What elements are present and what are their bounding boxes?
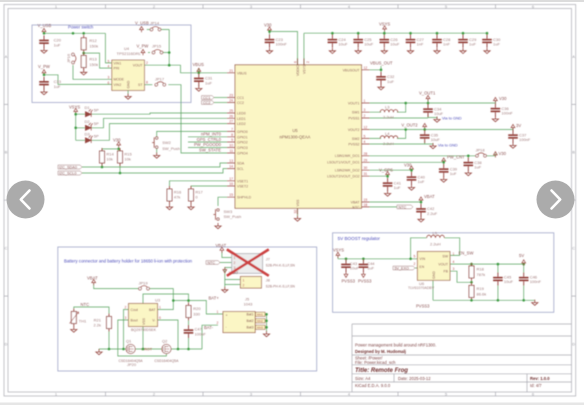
svg-text:5: 5 bbox=[414, 255, 416, 259]
junction V30 bbox=[268, 30, 271, 33]
svg-text:JP19: JP19 bbox=[139, 280, 149, 285]
svg-text:2.2uH: 2.2uH bbox=[383, 141, 394, 146]
ground under C28 bbox=[434, 48, 440, 54]
svg-text:L3: L3 bbox=[385, 105, 390, 110]
wire BAT+ rail bbox=[173, 301, 223, 315]
resistor R21 bbox=[107, 314, 112, 332]
svg-text:VBUSOUT: VBUSOUT bbox=[343, 68, 361, 72]
svg-text:2.2k: 2.2k bbox=[93, 323, 101, 328]
wire PW_PGOOD0 bbox=[188, 147, 227, 149]
resistor R13 bbox=[81, 53, 86, 71]
op IC U4 TPS2116DRL bbox=[112, 60, 145, 90]
svg-text:16: 16 bbox=[229, 182, 233, 186]
svg-text:19: 19 bbox=[364, 198, 368, 202]
wire V_USB rail bbox=[44, 33, 112, 63]
junction vout1 l3 bbox=[404, 102, 407, 105]
junction r20 top bbox=[187, 299, 190, 302]
ground under U4 bbox=[127, 90, 129, 94]
capacitor C27 bbox=[406, 35, 416, 48]
wire V30 top bbox=[270, 32, 298, 65]
ground under C25 bbox=[355, 48, 361, 54]
svg-text:VSYS: VSYS bbox=[379, 21, 390, 26]
svg-text:47k: 47k bbox=[174, 195, 180, 200]
svg-text:CC2: CC2 bbox=[237, 101, 244, 105]
svg-text:Power switch: Power switch bbox=[68, 24, 94, 29]
wire BQ supply bbox=[143, 294, 189, 304]
svg-text:V30: V30 bbox=[264, 23, 272, 28]
power flag VBAT right bbox=[419, 197, 423, 203]
svg-text:BQ29700DSEK: BQ29700DSEK bbox=[131, 328, 157, 332]
svg-text:10uF: 10uF bbox=[364, 42, 374, 47]
junction gnd rail r19 bbox=[470, 299, 473, 302]
inductor L4 bbox=[380, 136, 398, 139]
svg-text:VBAT: VBAT bbox=[424, 194, 435, 199]
wire VSYS leds rail bbox=[76, 112, 85, 140]
svg-text:PVSS3: PVSS3 bbox=[358, 279, 372, 284]
svg-text:5V_EXO: 5V_EXO bbox=[395, 267, 409, 271]
svg-text:2: 2 bbox=[243, 284, 245, 288]
svg-text:Power management build around: Power management build around nRF1300. bbox=[355, 342, 436, 347]
svg-text:1: 1 bbox=[364, 99, 366, 103]
svg-text:VOUT: VOUT bbox=[133, 64, 144, 68]
svg-text:B: B bbox=[572, 150, 575, 155]
svg-text:TLV61070ADBV: TLV61070ADBV bbox=[408, 286, 435, 290]
capacitor C37 bbox=[508, 130, 518, 143]
power flag V_OUT1 bbox=[426, 95, 430, 101]
wire LSOUT1 net bbox=[370, 160, 444, 165]
junction gnd rail c45 bbox=[497, 299, 500, 302]
svg-text:D: D bbox=[572, 342, 575, 347]
svg-text:11: 11 bbox=[229, 149, 233, 153]
wire NTC stub bbox=[370, 206, 398, 208]
U5 top bottom pin stubs bbox=[298, 59, 304, 215]
svg-text:MH3: MH3 bbox=[257, 325, 263, 329]
svg-text:R13: R13 bbox=[89, 57, 97, 62]
title block lines bbox=[352, 324, 572, 392]
svg-text:MH1: MH1 bbox=[257, 312, 263, 316]
svg-text:JP15: JP15 bbox=[152, 44, 162, 49]
ground bat terminals bbox=[263, 331, 269, 337]
inductor L3 bbox=[380, 110, 398, 113]
pwr down PVSS3 c43 bbox=[344, 272, 348, 278]
svg-text:1: 1 bbox=[217, 310, 219, 314]
capacitor C30 bbox=[482, 35, 492, 48]
svg-text:1uF: 1uF bbox=[493, 42, 500, 47]
wire LED0 bbox=[92, 113, 228, 114]
svg-text:BAT+: BAT+ bbox=[209, 295, 220, 300]
svg-text:3V: 3V bbox=[516, 123, 521, 128]
global label NTC right bbox=[397, 205, 413, 209]
svg-text:1: 1 bbox=[453, 252, 455, 256]
junction vbusout bbox=[380, 69, 383, 72]
svg-text:JP17: JP17 bbox=[155, 76, 165, 81]
svg-text:BAT: BAT bbox=[149, 308, 156, 312]
power flag VBAT battery bbox=[92, 279, 96, 285]
wire LSIN2 net bbox=[370, 169, 412, 173]
capacitor C43 bbox=[341, 259, 351, 272]
capacitor C46 bbox=[519, 273, 529, 286]
top window edge bbox=[0, 0, 584, 2]
svg-text:Battery connector and battery: Battery connector and battery holder for… bbox=[64, 259, 193, 264]
power flag V30 c36 bbox=[494, 97, 498, 103]
svg-text:NTC: NTC bbox=[399, 205, 407, 209]
jumper JP17 bbox=[155, 82, 166, 86]
svg-text:Size: A4: Size: A4 bbox=[355, 376, 371, 381]
junction vout2 c35 bbox=[423, 128, 426, 131]
svg-text:1043: 1043 bbox=[244, 302, 254, 307]
svg-text:VSS: VSS bbox=[296, 199, 300, 207]
svg-text:10uF: 10uF bbox=[338, 42, 348, 47]
capacitor C42 bbox=[416, 204, 426, 217]
junction bat plus bbox=[172, 299, 175, 302]
svg-text:Date: 2025-03-12: Date: 2025-03-12 bbox=[398, 376, 431, 381]
junction VOUT rail bbox=[168, 64, 171, 67]
junction vbat bbox=[420, 201, 423, 204]
svg-text:GPS_CTRL0: GPS_CTRL0 bbox=[197, 137, 222, 142]
svg-text:5V BOOST regulator: 5V BOOST regulator bbox=[338, 236, 381, 241]
junction rail dots bbox=[108, 348, 111, 351]
svg-text:VSS: VSS bbox=[142, 317, 146, 325]
U5 left pin numbers bbox=[229, 69, 233, 197]
U5 right pin numbers bbox=[364, 66, 368, 207]
svg-text:GND: GND bbox=[432, 271, 436, 279]
power flag VBAT J7 bbox=[220, 247, 224, 253]
wire PVSS1 gnd bbox=[370, 115, 438, 119]
svg-text:1uF: 1uF bbox=[367, 266, 374, 271]
svg-text:CC1: CC1 bbox=[203, 96, 210, 100]
svg-text:S2B-PH-K-S,LF,SN: S2B-PH-K-S,LF,SN bbox=[266, 285, 296, 289]
svg-text:1: 1 bbox=[234, 256, 236, 260]
svg-text:NTC: NTC bbox=[81, 302, 90, 307]
power flag V30 top bbox=[268, 27, 272, 33]
svg-text:TH1: TH1 bbox=[79, 319, 87, 324]
svg-text:4: 4 bbox=[364, 140, 366, 144]
capacitor C39 bbox=[439, 164, 449, 177]
column ticks top bbox=[106, 5, 496, 9]
svg-text:10k: 10k bbox=[106, 157, 112, 162]
wire V30 pullups bbox=[102, 146, 120, 151]
bat terminal boxes bbox=[256, 312, 266, 316]
wire SW2 gnd lead bbox=[156, 148, 158, 153]
svg-text:JP16: JP16 bbox=[66, 53, 71, 63]
svg-text:31: 31 bbox=[364, 172, 368, 176]
wire SHPHLD SW3 bbox=[218, 197, 227, 206]
svg-text:1uF: 1uF bbox=[205, 80, 212, 85]
svg-text:150k: 150k bbox=[89, 62, 98, 67]
wire VSYS boost rail bbox=[338, 238, 427, 262]
svg-text:nPM1300-QEAA: nPM1300-QEAA bbox=[280, 135, 311, 140]
wire CC2 bbox=[214, 102, 227, 104]
svg-text:L5: L5 bbox=[433, 230, 438, 235]
capacitor C47 bbox=[184, 325, 194, 338]
ground under C20 bbox=[41, 48, 47, 54]
junction led2 bbox=[74, 127, 77, 130]
svg-text:10k: 10k bbox=[124, 157, 130, 162]
capacitor C45 bbox=[493, 273, 503, 286]
jumper JP18 bbox=[476, 153, 487, 157]
svg-text:PW_CNT: PW_CNT bbox=[447, 155, 465, 160]
svg-text:10uF: 10uF bbox=[350, 266, 360, 271]
svg-text:U3: U3 bbox=[155, 297, 161, 302]
bottom window edge bbox=[0, 403, 584, 405]
svg-text:VSYS: VSYS bbox=[333, 248, 344, 253]
power flag V_OUT2 bbox=[423, 123, 427, 129]
svg-text:GND: GND bbox=[127, 80, 131, 88]
svg-text:LED0: LED0 bbox=[237, 112, 246, 116]
wire LED1 bbox=[92, 118, 228, 128]
svg-text:27: 27 bbox=[229, 120, 233, 124]
battery section box bbox=[58, 247, 317, 371]
resistor R19 bbox=[469, 282, 474, 300]
capacitor C23 bbox=[265, 35, 275, 48]
svg-text:LSOUT2/VOUT_DO2: LSOUT2/VOUT_DO2 bbox=[327, 175, 360, 179]
wire VOUT 5V rail bbox=[450, 263, 524, 273]
svg-text:2.2uF: 2.2uF bbox=[427, 211, 438, 216]
svg-text:24: 24 bbox=[229, 99, 233, 103]
wire R12 divider to PRI bbox=[84, 53, 112, 68]
pin numbers U4 bbox=[108, 59, 149, 85]
transistor Q1 bbox=[126, 344, 135, 353]
svg-text:+: + bbox=[226, 313, 228, 317]
svg-text:3: 3 bbox=[125, 316, 127, 320]
capacitor C35 bbox=[420, 130, 430, 143]
resistor R15 bbox=[118, 148, 123, 166]
svg-text:PVSS3: PVSS3 bbox=[416, 304, 430, 309]
wire U4 VOUT to VBUS bbox=[144, 65, 227, 73]
svg-text:V30: V30 bbox=[404, 163, 412, 168]
svg-text:VBAT: VBAT bbox=[216, 243, 227, 248]
capacitor C32 bbox=[376, 72, 386, 85]
svg-text:PRI: PRI bbox=[114, 67, 120, 71]
svg-text:FB: FB bbox=[444, 270, 449, 274]
junction R14 sda bbox=[101, 166, 104, 169]
power flag V30 pullups bbox=[117, 142, 121, 148]
svg-text:V_OUT2: V_OUT2 bbox=[401, 123, 418, 128]
svg-text:3: 3 bbox=[453, 267, 455, 271]
svg-text:CC1: CC1 bbox=[237, 96, 244, 100]
connector J8 bbox=[240, 277, 261, 289]
svg-text:VSYS: VSYS bbox=[69, 104, 80, 109]
svg-text:12: 12 bbox=[364, 66, 368, 70]
IC U6 TLV61070 bbox=[417, 252, 450, 281]
svg-text:KiCad E.D.A. 9.0.0: KiCad E.D.A. 9.0.0 bbox=[355, 383, 391, 388]
wire J7 feeds bbox=[220, 252, 240, 288]
ground under U5 bbox=[294, 216, 300, 222]
ground under R16 bbox=[166, 204, 172, 210]
column numbers bbox=[55, 4, 535, 397]
svg-text:SW_STATE: SW_STATE bbox=[199, 148, 221, 153]
wire BQ BAT pin bbox=[158, 301, 174, 310]
power flag VSYS boost bbox=[336, 252, 340, 258]
svg-text:LSIN1/WK_DO1: LSIN1/WK_DO1 bbox=[335, 154, 360, 158]
wire NTC R21 bbox=[74, 307, 109, 314]
svg-text:25: 25 bbox=[229, 109, 233, 113]
junction c27 bbox=[409, 32, 412, 35]
svg-text:V_PW: V_PW bbox=[38, 64, 50, 69]
power switch section box bbox=[32, 25, 191, 103]
svg-text:1uF: 1uF bbox=[469, 42, 476, 47]
power flag V_USB at JP14 bbox=[140, 26, 144, 32]
svg-text:2.2uH: 2.2uH bbox=[430, 241, 441, 246]
svg-text:10uF: 10uF bbox=[504, 279, 514, 284]
wire U5 bottom stub bbox=[297, 208, 299, 216]
svg-text:U5: U5 bbox=[292, 128, 298, 133]
ground under C31 bbox=[196, 86, 202, 92]
nav button left bbox=[7, 181, 45, 219]
power flag VBAT down bbox=[223, 267, 227, 273]
svg-text:V_OUT1: V_OUT1 bbox=[419, 90, 436, 95]
red X no-connect bbox=[227, 249, 269, 275]
junction gnd rail c46 bbox=[522, 299, 525, 302]
svg-text:VSET2: VSET2 bbox=[237, 185, 248, 189]
power flag V_PW at JP15 bbox=[141, 49, 145, 55]
junction c28 bbox=[436, 32, 439, 35]
svg-text:PVSS1: PVSS1 bbox=[348, 117, 359, 121]
ground bottom rail bbox=[96, 349, 102, 355]
svg-text:NTC: NTC bbox=[352, 205, 360, 209]
capacitor C34 bbox=[423, 104, 433, 117]
wire I2C_SDA0 bbox=[82, 163, 227, 167]
wire BQ Cout to Q1 bbox=[124, 310, 129, 350]
power flag V30 lsin2 bbox=[410, 166, 414, 172]
global label CC1 bbox=[202, 96, 215, 100]
wire L4 loop bbox=[370, 130, 406, 139]
svg-text:1uF: 1uF bbox=[450, 171, 457, 176]
svg-text:18: 18 bbox=[364, 203, 368, 207]
junction c25 bbox=[357, 32, 360, 35]
svg-text:SW: SW bbox=[442, 255, 448, 259]
junction v30 pullup bbox=[117, 148, 120, 151]
svg-text:2: 2 bbox=[146, 61, 148, 65]
capacitor C40 bbox=[407, 172, 417, 185]
svg-text:SW1: SW1 bbox=[352, 111, 360, 115]
svg-text:1uF: 1uF bbox=[387, 79, 394, 84]
svg-text:32: 32 bbox=[294, 210, 298, 214]
ground under C37 bbox=[510, 143, 516, 149]
ground under C27 bbox=[407, 48, 413, 54]
wire FB divider bbox=[450, 271, 472, 282]
IC U3 BQ29700 bbox=[129, 304, 158, 327]
ground under C41 bbox=[385, 191, 391, 197]
svg-text:V30: V30 bbox=[499, 151, 507, 156]
capacitor C38 bbox=[464, 158, 474, 171]
svg-text:MODE: MODE bbox=[114, 78, 125, 82]
ground under C30 bbox=[484, 48, 490, 54]
svg-text:1: 1 bbox=[243, 278, 245, 282]
svg-text:S2B-PH-K-S,LF,SN: S2B-PH-K-S,LF,SN bbox=[266, 264, 296, 268]
junction JP16 top bbox=[72, 32, 75, 35]
wire LED2 bbox=[92, 124, 228, 141]
svg-text:JP18: JP18 bbox=[476, 147, 486, 152]
junction vout1 c34 bbox=[427, 102, 430, 105]
svg-text:Via to GND: Via to GND bbox=[438, 142, 458, 147]
svg-text:SHPHLD: SHPHLD bbox=[237, 196, 252, 200]
junction boost rail c43 bbox=[345, 258, 348, 261]
svg-text:SCL: SCL bbox=[237, 167, 244, 171]
boost regulator section box bbox=[333, 233, 554, 312]
svg-text:17: 17 bbox=[229, 177, 233, 181]
svg-text:PVSS3: PVSS3 bbox=[342, 279, 356, 284]
svg-text:12: 12 bbox=[364, 126, 368, 130]
switch SW2 bbox=[152, 137, 158, 149]
wire SW_STATE net bbox=[168, 85, 227, 153]
svg-text:SW_Push: SW_Push bbox=[162, 146, 180, 151]
power flag VSYS leds bbox=[74, 108, 78, 114]
U5 right pin stubs bbox=[362, 70, 370, 207]
column ticks bottom bbox=[106, 392, 496, 396]
wire SW2 to GPIO0 bbox=[157, 131, 227, 136]
switch SW3 bbox=[213, 209, 219, 221]
wire VBUSOUT net bbox=[370, 66, 382, 72]
resistor R16 bbox=[167, 186, 172, 204]
svg-text:30: 30 bbox=[364, 166, 368, 170]
wire J5 bat pins bbox=[265, 314, 267, 331]
junction bat terminals bbox=[265, 313, 268, 316]
led D1 bbox=[85, 109, 92, 117]
svg-text:1uF: 1uF bbox=[54, 84, 61, 89]
power flag V30 jp18 bbox=[494, 152, 498, 158]
power flag 3V bbox=[511, 124, 515, 130]
boost wires bbox=[338, 238, 535, 301]
ground under C40 bbox=[408, 185, 414, 191]
svg-text:Q2: Q2 bbox=[162, 338, 168, 343]
svg-text:L4: L4 bbox=[385, 131, 390, 136]
svg-text:A: A bbox=[572, 54, 575, 59]
svg-text:3: 3 bbox=[108, 76, 110, 80]
global label I2C_SDA0 bbox=[58, 165, 82, 169]
capacitor C26 bbox=[380, 35, 390, 48]
junction c30 bbox=[486, 32, 489, 35]
global label CC2 bbox=[202, 101, 215, 105]
row letters bbox=[5, 54, 576, 347]
svg-text:15: 15 bbox=[229, 193, 233, 197]
junction R12 top bbox=[82, 32, 85, 35]
wire CC1 bbox=[214, 97, 227, 99]
wire LSOUT2 net bbox=[370, 174, 388, 179]
capacitor C31 bbox=[194, 73, 204, 86]
junction lsout2 bbox=[386, 175, 389, 178]
ground under TH1 bbox=[71, 327, 77, 333]
svg-text:29: 29 bbox=[364, 158, 368, 162]
power flag V_PW bbox=[42, 70, 46, 76]
svg-text:5: 5 bbox=[108, 59, 110, 63]
ground under C39 bbox=[441, 177, 447, 183]
svg-text:13: 13 bbox=[229, 159, 233, 163]
svg-text:CC2: CC2 bbox=[203, 101, 210, 105]
svg-text:2: 2 bbox=[364, 114, 366, 118]
svg-text:GPIO3: GPIO3 bbox=[237, 146, 248, 150]
ground under SW2 bbox=[154, 153, 160, 159]
connector J7 crossed out bbox=[232, 254, 263, 274]
U5 left pin stubs bbox=[227, 73, 235, 197]
inductor L5 bbox=[427, 235, 445, 238]
ground under C29 bbox=[460, 48, 466, 54]
svg-text:VSYS: VSYS bbox=[302, 64, 306, 74]
svg-text:Title: Remote Frog: Title: Remote Frog bbox=[355, 368, 408, 374]
svg-text:NTC: NTC bbox=[208, 261, 216, 265]
junction boost rail c44 bbox=[362, 258, 365, 261]
junction lsout1 bbox=[442, 161, 445, 164]
svg-text:2: 2 bbox=[414, 262, 416, 266]
wire JP14 JP15 rail bbox=[147, 30, 169, 66]
ground under C42 bbox=[418, 216, 424, 222]
wire VBAT to JP19 bbox=[94, 284, 140, 289]
svg-text:VOUT1: VOUT1 bbox=[348, 102, 360, 106]
svg-text:EN_SW: EN_SW bbox=[459, 251, 474, 256]
svg-text:Cout: Cout bbox=[131, 308, 138, 312]
svg-text:I2C_SDA0: I2C_SDA0 bbox=[59, 166, 77, 170]
svg-text:100nF: 100nF bbox=[276, 42, 288, 47]
